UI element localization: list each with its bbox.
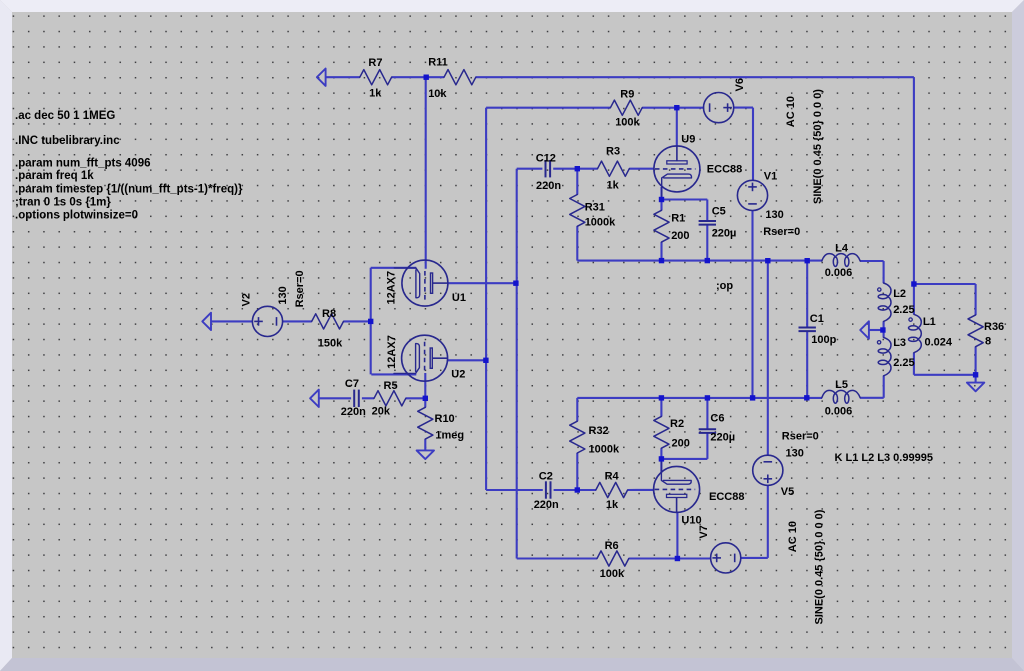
svg-text:C1: C1: [810, 313, 824, 325]
svg-text:1k: 1k: [369, 88, 382, 100]
svg-text:R31: R31: [585, 201, 605, 213]
svg-text:L5: L5: [835, 379, 848, 391]
svg-text:.INC tubelibrary.inc: .INC tubelibrary.inc: [15, 135, 120, 147]
svg-text:220n: 220n: [536, 180, 561, 192]
svg-text:220µ: 220µ: [712, 228, 737, 240]
svg-text:L4: L4: [835, 242, 849, 254]
svg-text:8: 8: [985, 336, 991, 348]
svg-text:R10: R10: [435, 413, 455, 425]
svg-text:130: 130: [786, 448, 804, 460]
svg-text:U10: U10: [681, 515, 701, 527]
svg-text:SINE(0 0.45 {50} 0 0 0): SINE(0 0.45 {50} 0 0 0): [814, 509, 826, 624]
svg-text:U1: U1: [452, 292, 466, 304]
svg-text:V5: V5: [781, 486, 794, 498]
svg-text:C2: C2: [539, 470, 553, 482]
svg-text:R5: R5: [384, 380, 398, 392]
svg-text:.ac dec 50 1 1MEG: .ac dec 50 1 1MEG: [15, 110, 115, 122]
svg-text:C5: C5: [712, 206, 726, 218]
svg-text:2.25: 2.25: [893, 304, 914, 316]
svg-text:AC 10: AC 10: [785, 96, 797, 127]
svg-text:.param num_fft_pts 4096: .param num_fft_pts 4096: [15, 158, 151, 170]
svg-text:Rser=0: Rser=0: [294, 270, 306, 307]
svg-text:1meg: 1meg: [435, 430, 464, 442]
svg-text:20k: 20k: [372, 406, 391, 418]
svg-text:R7: R7: [368, 57, 382, 69]
svg-text:200: 200: [672, 437, 690, 449]
svg-text:R3: R3: [606, 146, 620, 158]
svg-text:100k: 100k: [615, 117, 640, 129]
svg-text:Rser=0: Rser=0: [782, 431, 819, 443]
svg-text:R4: R4: [605, 470, 620, 482]
svg-text:220µ: 220µ: [710, 431, 735, 443]
svg-text:100k: 100k: [600, 568, 625, 580]
svg-text:U9: U9: [681, 133, 695, 145]
svg-text:130: 130: [765, 209, 783, 221]
svg-text:12AX7: 12AX7: [386, 271, 398, 305]
svg-text:R6: R6: [605, 540, 619, 552]
svg-text:R32: R32: [589, 425, 609, 437]
svg-text:L3: L3: [893, 337, 906, 349]
svg-text:1000k: 1000k: [589, 443, 620, 455]
svg-text:R36: R36: [984, 321, 1004, 333]
svg-text:;op: ;op: [716, 280, 733, 292]
svg-text:150k: 150k: [318, 338, 343, 350]
svg-text:;tran 0 1s 0s {1m}: ;tran 0 1s 0s {1m}: [15, 197, 111, 209]
svg-text:L2: L2: [893, 288, 906, 300]
svg-text:0.006: 0.006: [825, 406, 853, 418]
svg-text:1k: 1k: [606, 499, 619, 511]
svg-text:.param timestep {1/((num_fft_p: .param timestep {1/((num_fft_pts-1)*freq…: [15, 184, 243, 196]
svg-text:R9: R9: [620, 88, 634, 100]
svg-text:V6: V6: [734, 78, 746, 91]
svg-text:Rser=0: Rser=0: [763, 226, 800, 238]
svg-text:220n: 220n: [341, 406, 366, 418]
svg-text:R2: R2: [670, 418, 684, 430]
svg-text:V2: V2: [241, 293, 253, 306]
svg-text:C7: C7: [345, 378, 359, 390]
svg-text:C6: C6: [710, 413, 724, 425]
svg-text:SINE(0 0.45 {50} 0 0 0): SINE(0 0.45 {50} 0 0 0): [812, 89, 824, 204]
svg-text:100p: 100p: [811, 334, 836, 346]
svg-text:AC 10: AC 10: [787, 521, 799, 552]
svg-text:V1: V1: [764, 171, 777, 183]
svg-text:10k: 10k: [428, 88, 447, 100]
svg-text:12AX7: 12AX7: [386, 335, 398, 369]
svg-text:220n: 220n: [534, 499, 559, 511]
svg-text:130: 130: [277, 286, 289, 304]
svg-text:200: 200: [671, 230, 689, 242]
svg-text:R1: R1: [671, 213, 685, 225]
svg-text:ECC88: ECC88: [709, 491, 744, 503]
svg-text:R11: R11: [428, 57, 448, 69]
svg-text:R8: R8: [322, 308, 336, 320]
svg-text:ECC88: ECC88: [707, 164, 742, 176]
svg-text:V7: V7: [698, 525, 710, 538]
svg-text:0.024: 0.024: [925, 337, 953, 349]
svg-text:U2: U2: [451, 368, 465, 380]
svg-text:1000k: 1000k: [585, 216, 616, 228]
svg-text:C12: C12: [536, 153, 556, 165]
svg-text:1k: 1k: [607, 180, 620, 192]
svg-text:0.006: 0.006: [825, 267, 853, 279]
svg-text:2.25: 2.25: [893, 357, 914, 369]
svg-text:L1: L1: [923, 316, 936, 328]
svg-text:.param freq 1k: .param freq 1k: [15, 170, 94, 182]
svg-text:.options plotwinsize=0: .options plotwinsize=0: [15, 210, 138, 222]
svg-text:K L1 L2 L3 0.99995: K L1 L2 L3 0.99995: [835, 452, 933, 464]
